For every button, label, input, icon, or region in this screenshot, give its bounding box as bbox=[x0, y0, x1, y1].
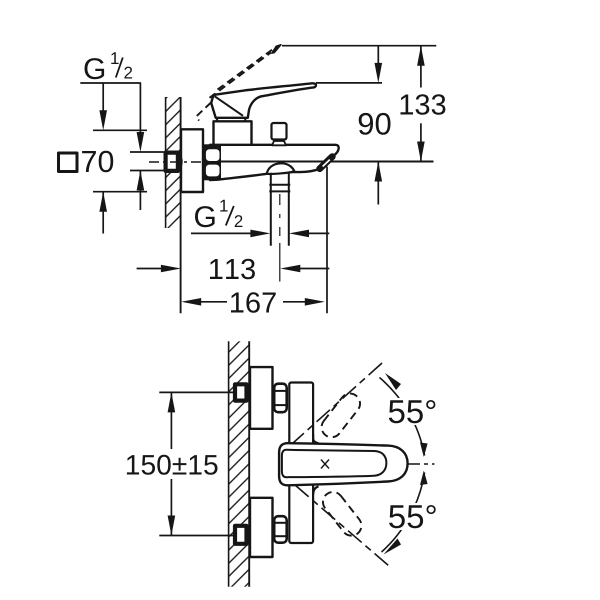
dim 113 bbox=[137, 268, 162, 270]
body mid contour / height reference line bbox=[212, 161, 434, 163]
hex connection nuts bbox=[274, 384, 287, 413]
handle centerline bbox=[408, 463, 435, 465]
dim 167 bbox=[326, 167, 328, 314]
lever handle (rest) bbox=[211, 83, 316, 118]
pipe centerline bbox=[279, 194, 281, 205]
wedge highlight bbox=[323, 160, 330, 167]
handle (front) bbox=[279, 443, 408, 485]
wall bbox=[229, 341, 250, 586]
pivot cross bbox=[321, 460, 329, 469]
supply nuts bbox=[235, 384, 247, 400]
dim 70 extent lines bbox=[93, 129, 147, 131]
value label 167 bbox=[231, 292, 276, 313]
dim: G 1/2 lower label bbox=[195, 206, 215, 227]
diverter knob bbox=[272, 123, 287, 140]
square symbol + 70 bbox=[59, 153, 78, 172]
dim: G 1/2 top label bbox=[85, 58, 105, 79]
value label 113 bbox=[210, 259, 255, 280]
faucet body bbox=[210, 145, 339, 180]
shower outlet pipe bbox=[269, 173, 290, 246]
cartridge block bbox=[214, 121, 252, 145]
value label 55 deg (lower) bbox=[389, 505, 436, 528]
dim 90 bbox=[377, 46, 379, 64]
inlet union (black) bbox=[204, 144, 221, 180]
dim 133 bbox=[420, 46, 422, 88]
value label 150 plus/minus 15 bbox=[127, 455, 218, 475]
value label 90 bbox=[359, 113, 391, 135]
G1/2 leader lines bbox=[80, 83, 140, 133]
raised lever (dashed) bbox=[196, 47, 276, 121]
supply union nut bbox=[166, 153, 178, 171]
spout end face (black wedge) bbox=[320, 157, 333, 169]
value label 55 deg (upper) bbox=[389, 400, 436, 423]
dim 150±15 bbox=[159, 391, 233, 393]
value label 133 bbox=[401, 94, 446, 115]
square fitting extent lines bbox=[130, 151, 164, 153]
column-handle fillets bbox=[313, 434, 318, 443]
body column bbox=[289, 383, 313, 544]
top extension line (raised lever height) bbox=[282, 45, 436, 47]
55° labels bbox=[384, 398, 438, 425]
union pipe end behind plate bbox=[176, 155, 182, 168]
value label 70 bbox=[82, 151, 113, 173]
lever crease bbox=[215, 96, 244, 116]
rotation axes (55°) bbox=[293, 363, 382, 443]
supply centerline bbox=[149, 161, 224, 163]
wall bbox=[166, 97, 181, 313]
outlet dome bbox=[267, 163, 295, 174]
rest lever extension line bbox=[316, 82, 382, 84]
handle rotated positions (dashed) bbox=[318, 390, 366, 540]
55° arcs bbox=[380, 378, 425, 456]
skirt lines bbox=[217, 118, 218, 121]
raised lever tip bbox=[272, 45, 281, 54]
escutcheon plate bbox=[181, 129, 203, 192]
escutcheon plates bbox=[250, 367, 273, 429]
